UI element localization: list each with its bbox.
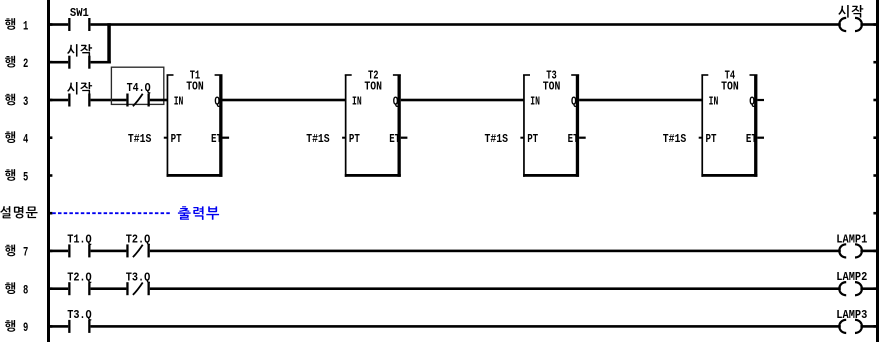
svg-text:T2.Q: T2.Q <box>67 271 92 284</box>
svg-text:PT: PT <box>349 133 360 146</box>
wire row: rail to contact T1.Q <box>50 250 68 253</box>
row label 행 9 <box>5 320 28 335</box>
PT input stub <box>699 137 703 139</box>
wire row: rail to contact T2.Q <box>50 287 68 290</box>
wire row2: rail to contact <box>50 61 68 64</box>
pin PT <box>349 133 360 146</box>
PT input stub <box>342 137 346 139</box>
svg-text:TON: TON <box>721 80 739 93</box>
row label 행 5 <box>5 169 28 184</box>
row label 행 3 <box>5 94 28 109</box>
pin Q <box>214 95 220 108</box>
row label 행 2 <box>5 56 28 71</box>
T4 Q output stub <box>757 99 764 101</box>
svg-text:T#1S: T#1S <box>128 133 152 146</box>
timer type label TON <box>543 80 561 93</box>
wire row1: rail to contact SW1 <box>50 23 68 26</box>
svg-text:Q: Q <box>571 95 577 108</box>
svg-text:PT: PT <box>171 133 182 146</box>
row label 설명문 (comment row) <box>0 206 37 218</box>
svg-text:T#1S: T#1S <box>663 133 687 146</box>
contact T1.Q (normally open) <box>67 234 92 258</box>
right rail row nubs <box>873 23 876 328</box>
svg-text:SW1: SW1 <box>70 7 89 20</box>
coil 시작 (output, row1) <box>838 5 863 31</box>
contact SW1 (normally open) <box>68 7 90 31</box>
svg-text:LAMP2: LAMP2 <box>836 271 867 284</box>
svg-text:LAMP1: LAMP1 <box>836 233 867 246</box>
svg-text:9: 9 <box>23 320 28 335</box>
contact T3.Q (normally open) <box>67 309 92 333</box>
pin Q <box>393 95 399 108</box>
wire row3: T3 Q to T4 IN <box>579 99 702 102</box>
wire to contact T3.Q <box>91 287 127 290</box>
selection cursor box <box>111 67 163 104</box>
svg-text:TON: TON <box>543 80 561 93</box>
PT input stub <box>164 137 168 139</box>
timer type label TON <box>721 80 739 93</box>
pin ET <box>211 133 222 146</box>
svg-text:Q: Q <box>393 95 399 108</box>
svg-text:Q: Q <box>749 95 755 108</box>
branch wire row1 to row2 <box>107 23 111 63</box>
wire row1: coil to right rail <box>860 23 876 26</box>
svg-text:3: 3 <box>23 94 28 109</box>
pin Q <box>571 95 577 108</box>
svg-text:5: 5 <box>23 169 28 184</box>
row label 행 4 <box>5 131 28 146</box>
svg-text:ET: ET <box>211 133 222 146</box>
wire row: rail to contact T3.Q <box>50 325 68 328</box>
svg-text:7: 7 <box>23 245 28 260</box>
left power rail <box>47 0 50 342</box>
timer instance label T3 <box>546 69 557 82</box>
timer type label TON <box>186 80 204 93</box>
contact T2.Q (normally closed) <box>126 234 151 258</box>
coil LAMP3 <box>836 309 867 333</box>
wire coil LAMP3 to right rail <box>860 325 876 328</box>
ET output stub <box>757 137 764 139</box>
wire row3: T1 Q to T2 IN <box>223 99 346 102</box>
value T#1S for T3 <box>485 133 509 146</box>
timer T1 TON function block <box>167 74 223 177</box>
value T#1S for T1 <box>128 133 152 146</box>
timer T3 TON function block <box>523 74 579 177</box>
svg-text:Q: Q <box>214 95 220 108</box>
svg-text:IN: IN <box>174 95 184 108</box>
timer instance label T4 <box>725 69 736 82</box>
contact 시작 (row3, normally open) <box>67 82 92 107</box>
svg-text:ET: ET <box>568 133 579 146</box>
svg-text:T4.Q: T4.Q <box>127 82 151 95</box>
wire coil LAMP2 to right rail <box>860 287 876 290</box>
row label 행 7 <box>5 244 28 259</box>
svg-text:T#1S: T#1S <box>485 133 509 146</box>
ET output stub <box>223 137 230 139</box>
pin PT <box>171 133 182 146</box>
pin IN <box>174 95 184 108</box>
svg-text:4: 4 <box>23 132 28 147</box>
pin ET <box>568 133 579 146</box>
pin PT <box>706 133 717 146</box>
svg-text:LAMP3: LAMP3 <box>836 309 867 322</box>
coil LAMP2 <box>836 271 867 295</box>
ET output stub <box>579 137 586 139</box>
timer instance label T1 <box>190 69 201 82</box>
timer type label TON <box>364 80 382 93</box>
pin ET <box>746 133 757 146</box>
pin IN <box>709 95 719 108</box>
left rail row nubs <box>50 23 52 328</box>
pin IN <box>352 95 362 108</box>
wire row3: T4.Q to timer T1 <box>150 99 168 102</box>
svg-text:TON: TON <box>364 80 382 93</box>
svg-text:TON: TON <box>186 80 204 93</box>
ET output stub <box>401 137 408 139</box>
svg-text:ET: ET <box>389 133 400 146</box>
svg-text:IN: IN <box>352 95 362 108</box>
contact T3.Q (normally closed) <box>126 271 151 295</box>
wire to coil LAMP3 <box>91 325 841 328</box>
wire row3: T2 Q to T3 IN <box>401 99 524 102</box>
pin ET <box>389 133 400 146</box>
svg-text:8: 8 <box>23 283 28 298</box>
value T#1S for T2 <box>306 133 330 146</box>
svg-text:IN: IN <box>530 95 540 108</box>
svg-text:1: 1 <box>23 18 28 33</box>
svg-text:T1.Q: T1.Q <box>67 234 92 247</box>
value T#1S for T4 <box>663 133 687 146</box>
svg-text:2: 2 <box>23 56 28 71</box>
wire to coil LAMP1 <box>150 250 841 253</box>
contact T2.Q (normally open) <box>67 271 92 295</box>
timer instance label T2 <box>368 69 379 82</box>
svg-text:IN: IN <box>709 95 719 108</box>
timer T2 TON function block <box>345 74 401 177</box>
svg-text:PT: PT <box>527 133 538 146</box>
right power rail <box>876 0 879 342</box>
contact 시작 (row2, normally open) <box>67 44 92 69</box>
pin PT <box>527 133 538 146</box>
comment text 출력부 <box>178 206 219 220</box>
wire to contact T2.Q <box>91 250 127 253</box>
wire row1: SW1 to coil <box>91 23 841 26</box>
contact T4.Q (normally closed) <box>126 82 150 107</box>
comment dashed line <box>52 212 170 214</box>
wire row2: contact to branch <box>91 61 111 64</box>
coil LAMP1 <box>836 233 867 257</box>
row label 행 8 <box>5 282 28 297</box>
PT input stub <box>520 137 524 139</box>
wire coil LAMP1 to right rail <box>860 250 876 253</box>
pin Q <box>749 95 755 108</box>
pin IN <box>530 95 540 108</box>
timer T4 TON function block <box>701 74 757 177</box>
svg-text:T3.Q: T3.Q <box>126 271 151 284</box>
row label 행 1 <box>5 18 28 33</box>
svg-text:PT: PT <box>706 133 717 146</box>
svg-text:T#1S: T#1S <box>306 133 330 146</box>
svg-text:T2.Q: T2.Q <box>126 234 151 247</box>
svg-text:T3.Q: T3.Q <box>67 309 92 322</box>
wire row3: contact to contact T4.Q <box>91 99 127 102</box>
wire to coil LAMP2 <box>150 287 841 290</box>
svg-text:ET: ET <box>746 133 757 146</box>
wire row3: rail to contact <box>50 99 68 102</box>
